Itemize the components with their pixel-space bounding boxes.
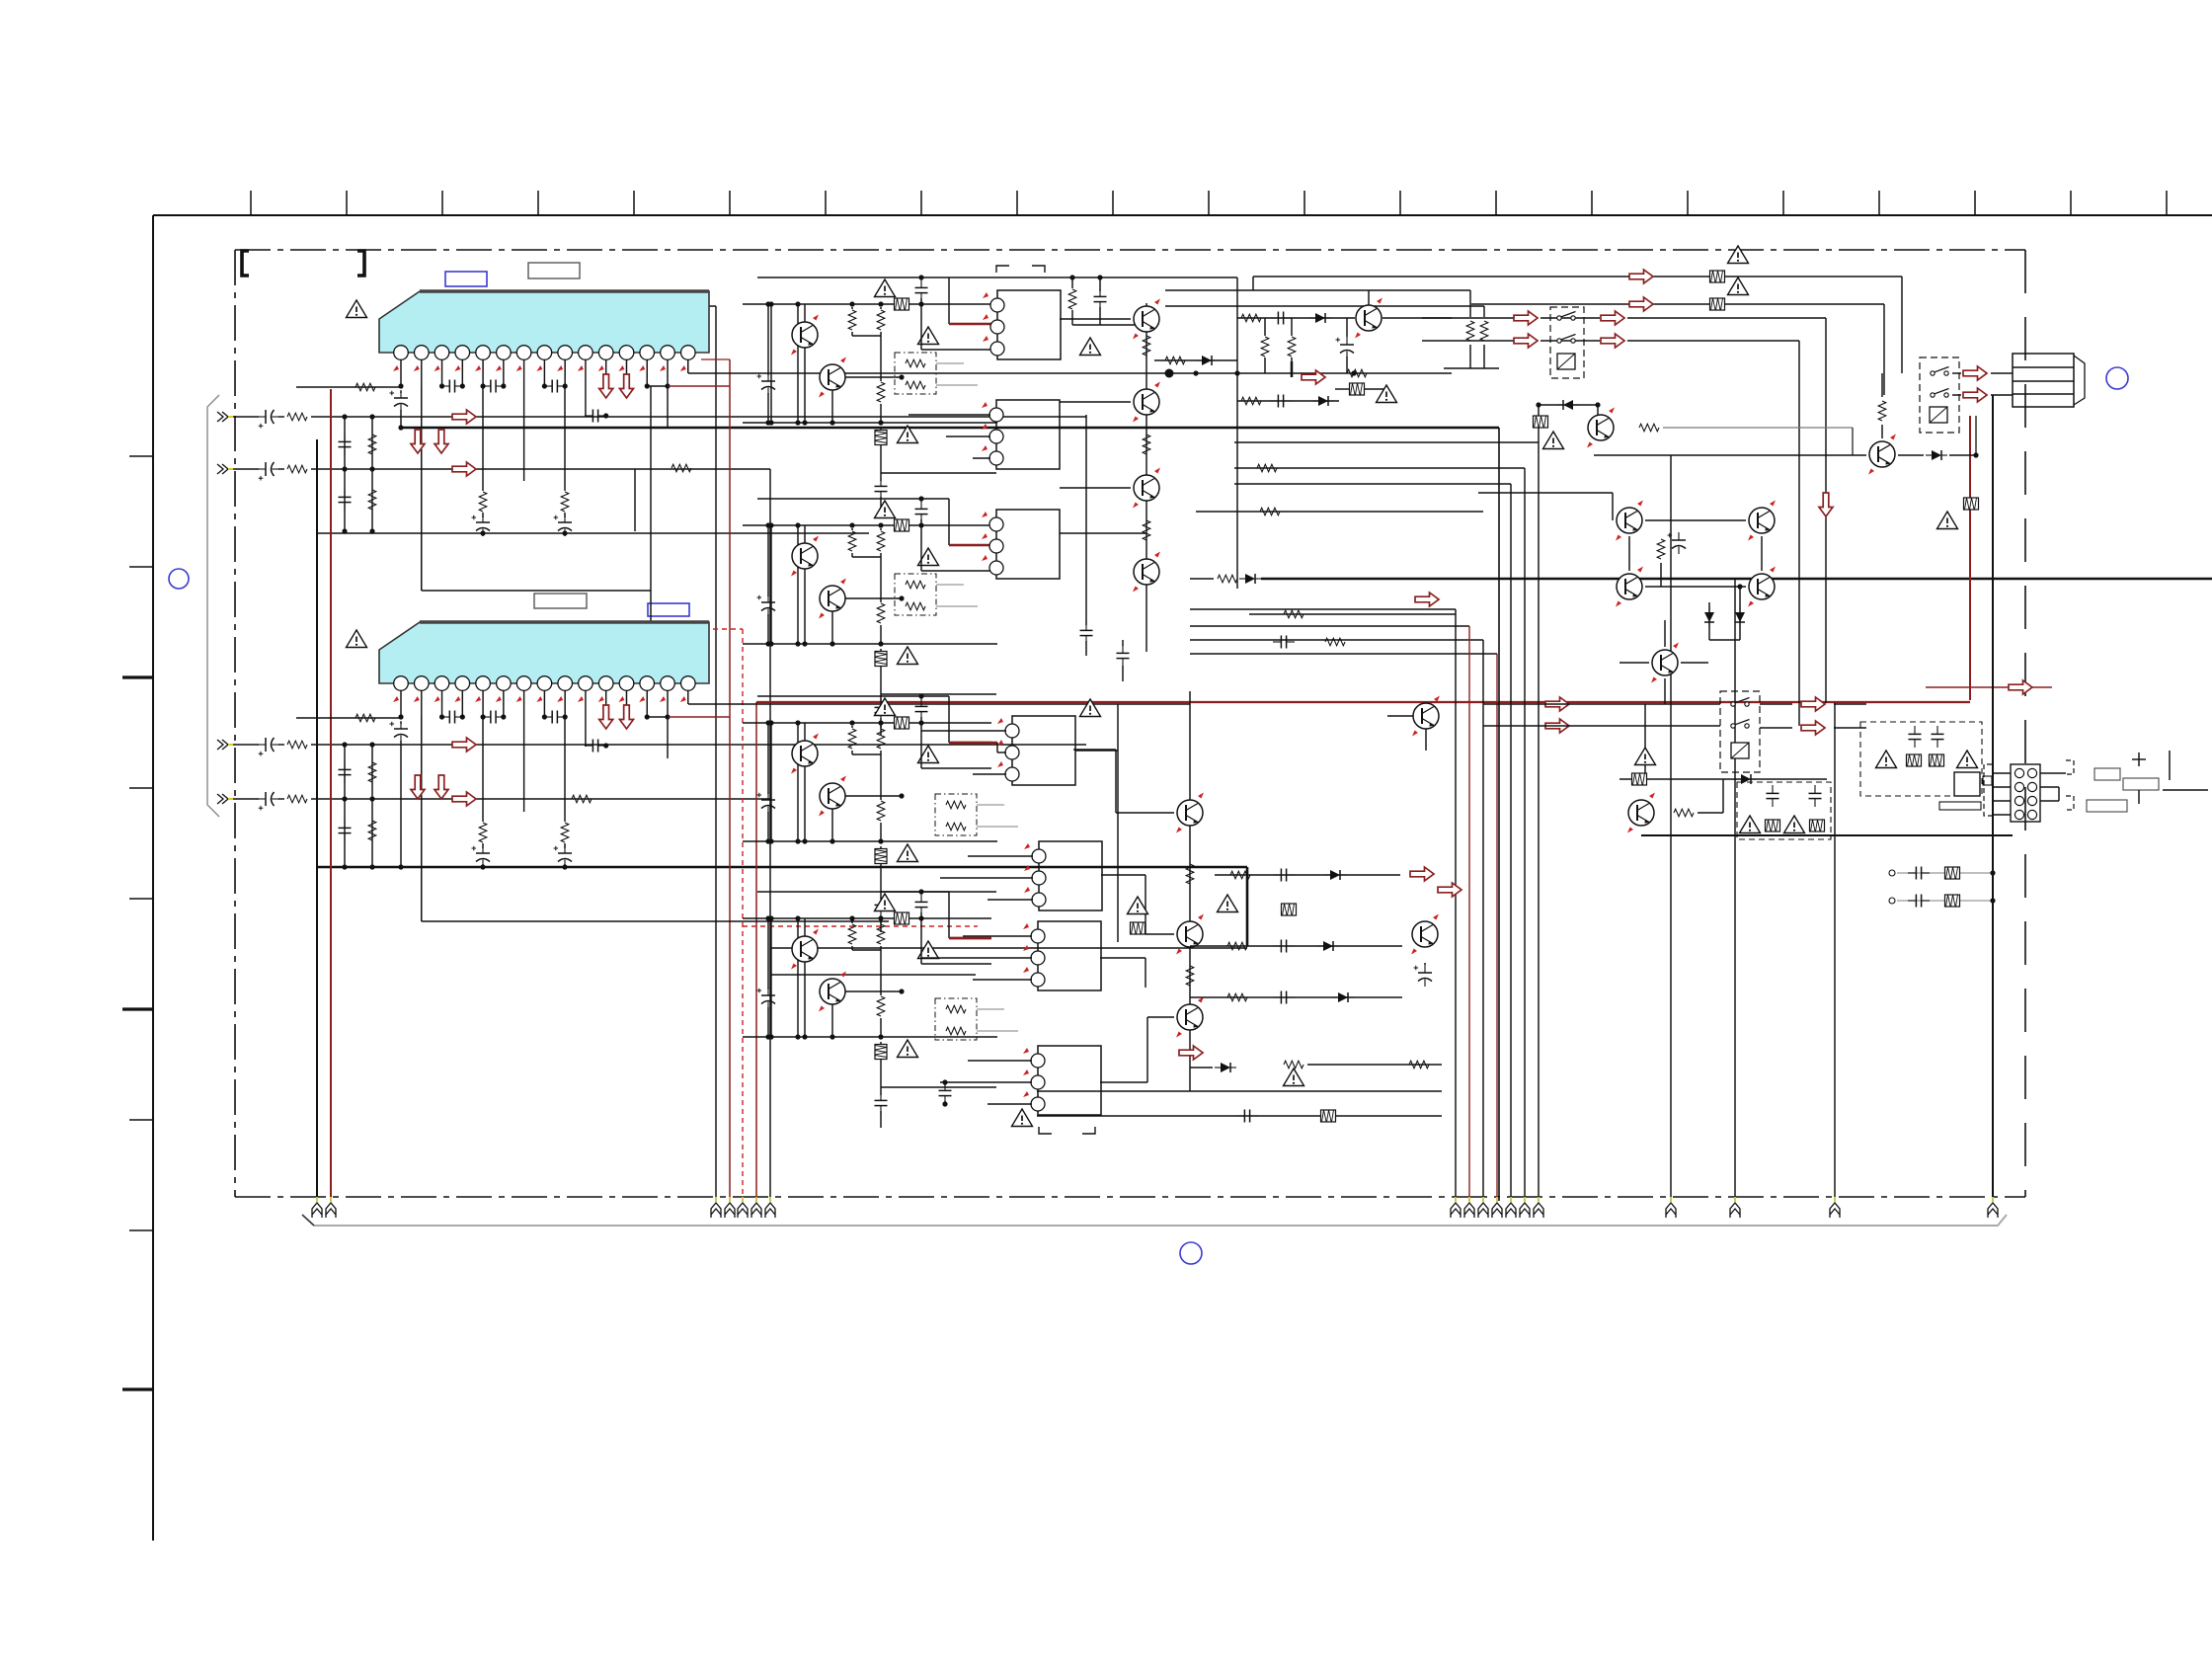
drvA rail C	[743, 422, 997, 424]
cap C14	[585, 410, 606, 423]
thick rail lead-in	[1190, 578, 1214, 580]
wire bus x1558	[1538, 442, 1540, 1201]
bottom connectors group1	[312, 1197, 322, 1218]
cap C11	[439, 383, 444, 388]
wire input3 run	[233, 744, 259, 746]
row y958 components	[1190, 945, 1402, 947]
arrow right relay l1	[1545, 697, 1569, 711]
resistor box mid right	[1282, 904, 1297, 915]
label small right3	[2087, 800, 2127, 812]
cap C23	[542, 714, 547, 719]
bottom connector x2016	[1988, 1197, 1998, 1218]
wire fan y617	[1190, 608, 1456, 610]
drvB rail C	[743, 643, 997, 645]
warn IC1	[347, 300, 367, 318]
input connector J3	[217, 740, 233, 750]
wire bottom mid y1130	[1037, 1115, 1442, 1117]
feed lines B4	[921, 730, 1006, 732]
IC U2 pin 7	[516, 676, 531, 691]
drvC low link	[881, 891, 996, 893]
wire input2 run	[233, 468, 259, 470]
drvB pin3 feed	[920, 525, 922, 571]
label small right1	[2094, 768, 2120, 780]
cap drvC low	[875, 897, 888, 918]
drvA low link	[881, 472, 996, 474]
res above Q21	[1881, 373, 1883, 397]
drvD ecap column	[767, 918, 769, 990]
drvB dashdot pair box	[895, 574, 936, 615]
switch box A	[1550, 307, 1584, 378]
res quad2	[1660, 563, 1662, 587]
warn near column2	[1080, 699, 1101, 717]
IC U1 pin stubs	[400, 359, 402, 386]
resistor column y450	[1143, 435, 1150, 454]
amp box B2	[996, 400, 1060, 469]
cap hang x1114	[1099, 277, 1101, 291]
red down arrow right	[1819, 493, 1833, 516]
wire fan y448	[1234, 441, 1539, 443]
dash box D relay	[1860, 722, 1982, 796]
row y622 res	[1249, 613, 1456, 615]
arrow right mid1	[1410, 867, 1434, 881]
resistor drvC Rb	[880, 726, 882, 728]
resistor column y537	[1143, 520, 1150, 540]
transistor drvB Q1	[804, 525, 806, 543]
IC U2 pin 9	[558, 676, 573, 691]
wire gray feedback y433	[1663, 427, 1853, 429]
wire vertical x659	[650, 386, 652, 629]
wire bus black left	[316, 439, 318, 1201]
transistor column Q14	[1176, 793, 1204, 833]
wire right quad rail y500	[1478, 492, 1613, 494]
amp box B7	[1038, 1046, 1101, 1115]
transistor Q40	[1627, 793, 1655, 833]
resistor box drvA low	[880, 428, 882, 430]
arrow dn IC1 b	[619, 374, 633, 398]
warn drvC b	[918, 746, 939, 763]
box-column links	[1060, 318, 1131, 320]
bottom board bracket	[302, 1215, 2007, 1226]
warn top row1	[1728, 246, 1749, 264]
bottom connectors group3	[1451, 1197, 1461, 1218]
drvD base risers	[770, 918, 772, 1037]
resistor column low y988	[1186, 966, 1194, 986]
transistor Q34	[1664, 620, 1666, 647]
arrow dn IC2 b	[619, 705, 633, 729]
transistor drvC Q1	[804, 723, 806, 741]
wire red riser right	[1969, 416, 1971, 700]
wire fan y634	[1190, 625, 1469, 627]
wire bus x1757	[1734, 579, 1736, 1201]
drvA rail B	[743, 303, 991, 305]
cap under drop x1100	[1085, 591, 1087, 625]
wire bottom mid y1105	[1037, 1090, 1442, 1092]
drvC dashdot pair box	[935, 794, 977, 835]
bottom connector x1757	[1730, 1197, 1740, 1218]
drvB rail B	[743, 524, 991, 526]
resistor box relay	[1632, 773, 1647, 785]
wire thick rail IC1	[401, 427, 1499, 430]
bottom connector x1692	[1666, 1197, 1676, 1218]
ecap quad	[1668, 532, 1687, 554]
warn drvB c	[898, 647, 918, 665]
IC U2 pin 5	[476, 676, 491, 691]
ecap QA	[1346, 318, 1348, 337]
wire red rail y711	[756, 701, 1970, 703]
resistor drvD Ra	[851, 921, 853, 923]
arrow right input3	[452, 738, 476, 752]
wire bottom center y960	[770, 947, 1247, 949]
IC U2 pin 8	[537, 676, 552, 691]
diode D20	[1539, 404, 1598, 406]
IC U2	[379, 622, 709, 683]
arrow dn IC1 c	[411, 430, 425, 453]
resistor box drvB low	[880, 649, 882, 651]
cap C12	[480, 383, 485, 388]
warn drvB a	[875, 501, 896, 518]
res input4 row	[572, 795, 592, 803]
drvC rail B	[743, 722, 991, 724]
column wire lower	[1189, 691, 1191, 1091]
ecap input 1	[258, 410, 279, 429]
wire bus darkred left	[330, 389, 332, 1201]
res quad	[1657, 539, 1665, 559]
resistor box top row1	[1710, 271, 1725, 282]
wire IC1 out line y378	[688, 372, 1452, 374]
wire dashed red y938	[743, 925, 978, 927]
transistor drvA Q1	[804, 304, 806, 322]
resistor box drvC railB	[895, 717, 909, 729]
res fan474	[1257, 464, 1277, 472]
arrow dn IC1 a	[599, 374, 613, 398]
arrow right top row2	[1629, 297, 1653, 311]
feedback res IC1	[296, 386, 401, 388]
cap B7 feed	[939, 1082, 952, 1104]
quad block Q30-Q33	[1645, 519, 1746, 521]
transistor column Q13	[1133, 552, 1160, 593]
resistor drvB Rb	[880, 528, 882, 530]
corner mark above B1	[996, 266, 1045, 273]
drvB red pin feed	[948, 499, 950, 545]
wire speaker row y345	[1422, 340, 1514, 342]
transistor drvD Q1	[804, 918, 806, 936]
warn x1573	[1543, 432, 1564, 449]
arrow dn IC1 d	[434, 430, 448, 453]
IC U1 pin 7	[516, 346, 531, 360]
wire B-column riser x1253	[1236, 277, 1238, 589]
resistor column low y885	[1186, 864, 1194, 884]
transistor Q21	[1868, 435, 1896, 475]
wire fan y474	[1234, 467, 1525, 469]
row A y322	[1237, 317, 1355, 319]
page ref circle left	[169, 569, 189, 589]
input connector J1	[217, 412, 233, 422]
transistor drvB Q2	[819, 579, 846, 619]
arrow right relay l2	[1545, 719, 1569, 733]
cap res row1	[1889, 870, 1895, 876]
arrow dn IC2 a	[599, 705, 613, 729]
connector feeds	[1993, 772, 2011, 774]
resistor input 1	[287, 413, 307, 421]
drvD red pin feed	[948, 892, 950, 938]
resistor box top row2	[1710, 298, 1725, 310]
wire bus center x739	[701, 358, 730, 360]
warn top row2	[1728, 277, 1749, 295]
wire bus x1502	[1482, 640, 1484, 1201]
resistor drvD Rc	[877, 996, 885, 1016]
ecap input 3	[258, 738, 279, 756]
IC U2 pin 4	[455, 676, 470, 691]
gray res	[1639, 424, 1659, 432]
warn bottom mid	[1284, 1069, 1304, 1086]
warn mid right	[1218, 895, 1238, 912]
IC1 output RC chains	[482, 386, 484, 491]
wire input4 run	[233, 798, 259, 800]
amp box B3	[996, 510, 1060, 579]
arrow right spk2 l	[1514, 334, 1538, 348]
warn drvA a	[875, 279, 896, 297]
resistor box drvB railB	[895, 519, 909, 531]
drvC pin3 feed	[920, 723, 922, 768]
resistor pair vertical	[1466, 321, 1474, 341]
IC U2 pin 2	[415, 676, 430, 691]
drvC rail A	[757, 695, 949, 697]
cap drvA railA	[915, 279, 928, 301]
warn drvA c	[898, 426, 918, 443]
ecap input 4	[258, 792, 279, 811]
wire red spur y696	[1926, 686, 2052, 688]
wire relay riser x1666	[1644, 704, 1646, 779]
warn drvA b	[918, 327, 939, 345]
resistor drvB Ra	[851, 528, 853, 530]
transistor column Q15	[1176, 914, 1204, 955]
IC U1 pin 15	[681, 346, 696, 360]
wire bus center x766	[755, 702, 757, 1201]
row B y406	[1237, 400, 1339, 402]
warn drvD c	[898, 1040, 918, 1058]
transistor column Q16	[1176, 997, 1204, 1038]
left ruler ticks	[129, 455, 153, 457]
ecap input 2	[258, 462, 279, 481]
wire bus x1692	[1670, 455, 1672, 1201]
wire top right row y280	[1253, 276, 1902, 277]
IC2 output RC chains	[482, 717, 484, 822]
wire thick rail right	[1261, 578, 2212, 581]
cap drvB railA	[915, 501, 928, 522]
arrow right mid2	[1438, 883, 1461, 897]
res Q40	[1674, 809, 1694, 817]
drvA base risers	[770, 304, 772, 423]
arrow y607	[1415, 593, 1439, 606]
wire bus center dashed red x752	[651, 628, 743, 630]
res diode row y365	[1154, 359, 1237, 361]
row bottom res	[1284, 1061, 1303, 1069]
wire pin2 long drop	[421, 386, 423, 591]
wire fan y518	[1196, 511, 1483, 513]
switch box C	[1720, 691, 1760, 772]
cap C21	[439, 714, 444, 719]
corner mark below B7	[1039, 1127, 1095, 1134]
diode bottom mid	[1215, 1063, 1236, 1072]
resistor box drvC low	[880, 846, 882, 848]
amp box B1	[997, 290, 1061, 359]
arrow right input2	[452, 462, 476, 476]
drvD pin3 feed	[920, 918, 922, 964]
arrow right spk1 l	[1514, 311, 1538, 325]
wire bus x1858	[1834, 703, 1836, 1201]
wire pin15 drop	[687, 359, 689, 373]
border left rule	[152, 215, 154, 1541]
warn coil	[1377, 385, 1397, 403]
IC U1 pin 2	[415, 346, 430, 360]
wire mid rail y538	[317, 532, 869, 534]
wire relay area y789	[1619, 778, 1827, 780]
label small right2	[2123, 778, 2159, 790]
cap drvD railA	[915, 894, 928, 915]
wire bus x1518 thick drop	[1498, 428, 1500, 1201]
feed lines B5	[968, 855, 1033, 857]
cap mark right1	[2138, 752, 2140, 766]
drvD rail C	[743, 1036, 997, 1038]
arrow mid y381	[1302, 370, 1325, 384]
wire input1 run	[233, 416, 259, 418]
title bracket glyphs	[242, 251, 249, 276]
coil row x1374	[1347, 369, 1367, 377]
res hang x1308	[1291, 318, 1293, 336]
motor M1	[2013, 354, 2074, 407]
label box blue IC1	[445, 272, 487, 286]
resistor hang x1086	[1071, 277, 1073, 288]
drvC base risers	[770, 723, 772, 841]
IC U2 pin 14	[661, 676, 675, 691]
row y886 components	[1215, 874, 1400, 876]
connector CN1	[2011, 764, 2040, 822]
IC U1 pin 6	[497, 346, 512, 360]
wire bus x1516	[1496, 654, 1498, 1201]
arrow right relay r2	[1801, 721, 1825, 735]
input connector J2	[217, 464, 233, 474]
arrow dn IC2 d	[434, 775, 448, 799]
drvA dashdot pair box	[895, 353, 936, 394]
wire input1 drop x1100	[1085, 415, 1087, 591]
row280 stub	[1252, 277, 1254, 290]
arrow into motor 2	[1963, 388, 1987, 402]
resistor box drvA railB	[895, 298, 909, 310]
left input group brace	[207, 395, 219, 817]
resistor box red bus	[1964, 498, 1979, 510]
warn below B7	[1012, 1109, 1033, 1127]
label box blue IC2	[648, 603, 689, 616]
arrow red spur	[2009, 680, 2032, 694]
IC U2 pin 10	[579, 676, 593, 691]
IC U1 pin 9	[558, 346, 573, 360]
IC U2 pin stubs	[400, 690, 402, 717]
top rail y281 center	[949, 277, 1237, 278]
input connector J4	[217, 794, 233, 804]
column wire upper	[1145, 303, 1147, 652]
feedback res IC2	[296, 717, 401, 719]
resistor drvC Ra	[851, 726, 853, 728]
cap C22	[480, 714, 485, 719]
transistor Q20	[1587, 408, 1615, 448]
line right far	[2169, 751, 2171, 780]
transistor Q17	[1412, 696, 1440, 737]
feed lines B2	[908, 414, 990, 416]
IC U1 pin 14	[661, 346, 675, 360]
drvA red pin feed	[948, 277, 950, 324]
arrow right input4	[452, 792, 476, 806]
arrow right input1	[452, 410, 476, 424]
resistor drvA Rb	[880, 307, 882, 309]
cap drvD low	[875, 1092, 888, 1114]
resistor drvA Ra	[851, 307, 853, 309]
wire top right row y308	[1471, 303, 1884, 305]
arrow right spk1 r	[1601, 311, 1624, 325]
cap C13	[542, 383, 547, 388]
IC U1 pin1 ecap branch	[398, 383, 403, 388]
cap under column	[1117, 645, 1130, 667]
cap drvA low	[875, 478, 888, 500]
transistor Q50	[1411, 914, 1439, 955]
IC U1 pin 13	[640, 346, 655, 360]
warn drvD a	[875, 894, 896, 911]
input filter caps/res channel 1	[344, 417, 346, 531]
warn drvC a	[875, 698, 896, 716]
IC U1	[379, 291, 709, 353]
drvA pin3 feed	[920, 304, 922, 350]
dash box small caps	[1737, 782, 1831, 839]
IC U2 pin 15	[681, 676, 696, 691]
wire bottom right cap rows	[1897, 872, 1993, 874]
wire motor leads	[1952, 372, 1961, 374]
resistor drvD Rb	[880, 921, 882, 923]
arrow into motor 1	[1963, 366, 1987, 380]
cap drvB low	[875, 699, 888, 721]
warn y940 left	[1128, 897, 1148, 914]
wire thick rail IC2	[317, 866, 1247, 869]
amp box B4	[1012, 716, 1075, 785]
resistor box x1560	[1534, 416, 1548, 428]
wire bottom center y987	[770, 974, 976, 976]
resistor box y940 left	[1131, 922, 1145, 934]
diodes under quad	[1708, 602, 1710, 640]
row y650 caps	[1273, 636, 1295, 649]
IC U1 pins13-14 tie	[645, 383, 650, 388]
relay wires	[1483, 703, 1720, 705]
diode relay	[1735, 774, 1757, 784]
IC U2 pin 1	[394, 676, 409, 691]
wire bus x1488	[1468, 626, 1470, 1201]
wire speaker row y322	[1422, 317, 1514, 319]
wire bus center x725	[691, 305, 716, 307]
IC U1 pin 4	[455, 346, 470, 360]
amp box B6	[1038, 921, 1101, 990]
wire bus x2016	[1992, 395, 1994, 1201]
drvB rail A	[757, 498, 949, 500]
transistor QA	[1355, 298, 1382, 339]
arrow right spk2 r	[1601, 334, 1624, 348]
arrow right top row1	[1629, 270, 1653, 283]
wire ic2out drop x1132	[1117, 704, 1119, 942]
wire bus x1474	[1455, 609, 1457, 1201]
drvB base risers	[770, 525, 772, 644]
page ref circle right	[2106, 367, 2128, 389]
wire bus center x780	[769, 469, 771, 1201]
resistor input 2	[287, 465, 307, 473]
drvD rail B	[743, 917, 991, 919]
wire fan y490	[1234, 483, 1511, 485]
warn IC2	[347, 630, 367, 648]
